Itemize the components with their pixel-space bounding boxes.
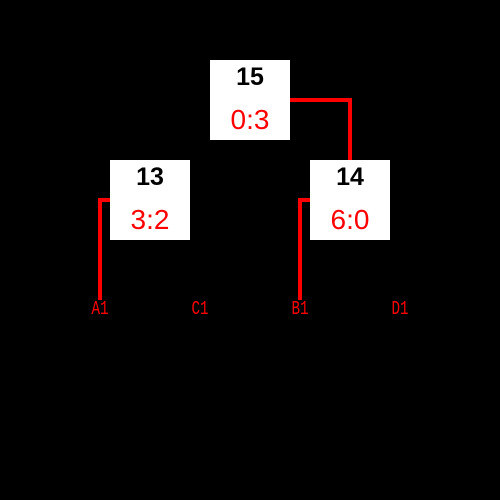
- match 14 score 6:0: [310, 206, 390, 234]
- match box 13 (semifinal left): [110, 160, 190, 240]
- seed label C1: [178, 300, 223, 319]
- match 15 score 0:3: [210, 106, 290, 134]
- match 13 number: [110, 165, 190, 190]
- match 14 number: [310, 165, 390, 190]
- match 15 number: [210, 65, 290, 90]
- seed label B1: [278, 300, 323, 319]
- match box 14 (semifinal right): [310, 160, 390, 240]
- match box 15 (final): [210, 60, 290, 140]
- seed label D1: [378, 300, 423, 319]
- match 13 score 3:2: [110, 206, 190, 234]
- seed label A1: [78, 300, 123, 319]
